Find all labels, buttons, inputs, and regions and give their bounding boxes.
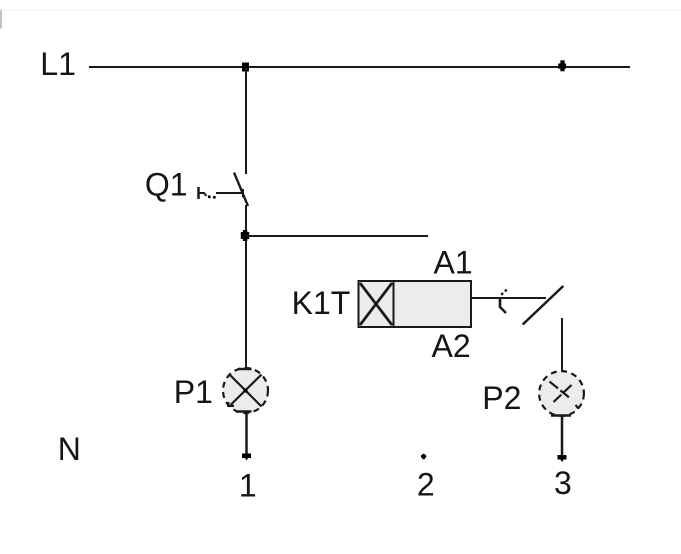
svg-text:1: 1: [239, 468, 257, 504]
svg-text:A1: A1: [434, 245, 473, 281]
svg-text:Q1: Q1: [145, 167, 188, 203]
svg-text:P2: P2: [482, 380, 521, 416]
svg-text:L1: L1: [40, 46, 76, 82]
svg-text:K1T: K1T: [292, 285, 351, 321]
svg-text:P1: P1: [174, 374, 213, 410]
svg-text:2: 2: [417, 467, 435, 503]
svg-text:3: 3: [554, 465, 572, 501]
svg-text:A2: A2: [432, 328, 471, 364]
svg-text:N: N: [58, 431, 81, 467]
